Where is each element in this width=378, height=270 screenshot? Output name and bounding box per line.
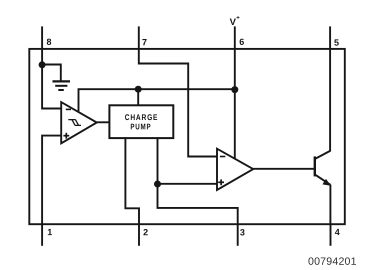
wire transistor emitter to pin4 xyxy=(329,185,331,225)
svg-text:1: 1 xyxy=(47,227,52,237)
svg-text:3: 3 xyxy=(240,227,245,237)
junction dot charge pump top xyxy=(135,86,142,93)
wire pin7 to comparator U2 minus input xyxy=(139,49,217,156)
pin 5 lead xyxy=(329,26,331,49)
pin 1 lead xyxy=(41,224,43,246)
wire transistor collector to pin5 xyxy=(329,49,331,151)
junction dot node A xyxy=(154,181,161,188)
wire node A to comparator U2 plus input xyxy=(158,183,218,185)
svg-text:6: 6 xyxy=(239,37,244,47)
pin 4 lead xyxy=(330,224,332,246)
wire charge pump to node A and pin3 xyxy=(158,138,238,224)
wire comparator U1 output to charge pump xyxy=(97,121,110,123)
svg-text:CHARGE: CHARGE xyxy=(125,113,159,122)
svg-text:4: 4 xyxy=(335,227,340,237)
IC outline box xyxy=(29,49,345,224)
pin 2 lead xyxy=(138,224,140,246)
wire ground branch xyxy=(42,65,61,82)
svg-text:7: 7 xyxy=(142,37,147,47)
charge pump block xyxy=(109,105,173,138)
wire comparator U2 output to transistor Q1 base xyxy=(253,168,314,170)
pin number labels xyxy=(46,37,340,238)
svg-text:5: 5 xyxy=(334,38,339,48)
wire charge pump to pin2 xyxy=(125,138,139,224)
svg-text:8: 8 xyxy=(46,37,51,47)
hysteresis symbol xyxy=(68,120,81,126)
comparator U1 xyxy=(61,102,97,143)
net label V+ xyxy=(230,15,241,28)
wire pin6 down to comparator U2 xyxy=(234,49,236,159)
svg-text:+: + xyxy=(236,16,240,22)
wire pin1 to comparator U1 plus input xyxy=(42,136,61,225)
svg-text:2: 2 xyxy=(143,227,148,237)
wire pin8 to comparator U1 minus input xyxy=(42,49,61,108)
wire top bus y89 to pin6 xyxy=(79,89,235,111)
pin 3 lead xyxy=(237,224,239,246)
junction dot pin6 bus xyxy=(231,86,238,93)
transistor Q1 xyxy=(315,151,331,186)
svg-text:00794201: 00794201 xyxy=(308,256,357,268)
junction dot ground node xyxy=(39,61,46,68)
figure number 00794201 xyxy=(308,256,357,268)
comparator U2 xyxy=(217,149,253,190)
pin 8 lead xyxy=(41,26,43,49)
svg-text:PUMP: PUMP xyxy=(130,122,151,131)
ground xyxy=(53,81,71,90)
wire charge pump top stub xyxy=(137,89,139,105)
pin 6 lead xyxy=(234,26,236,49)
pin 7 lead xyxy=(138,26,140,49)
